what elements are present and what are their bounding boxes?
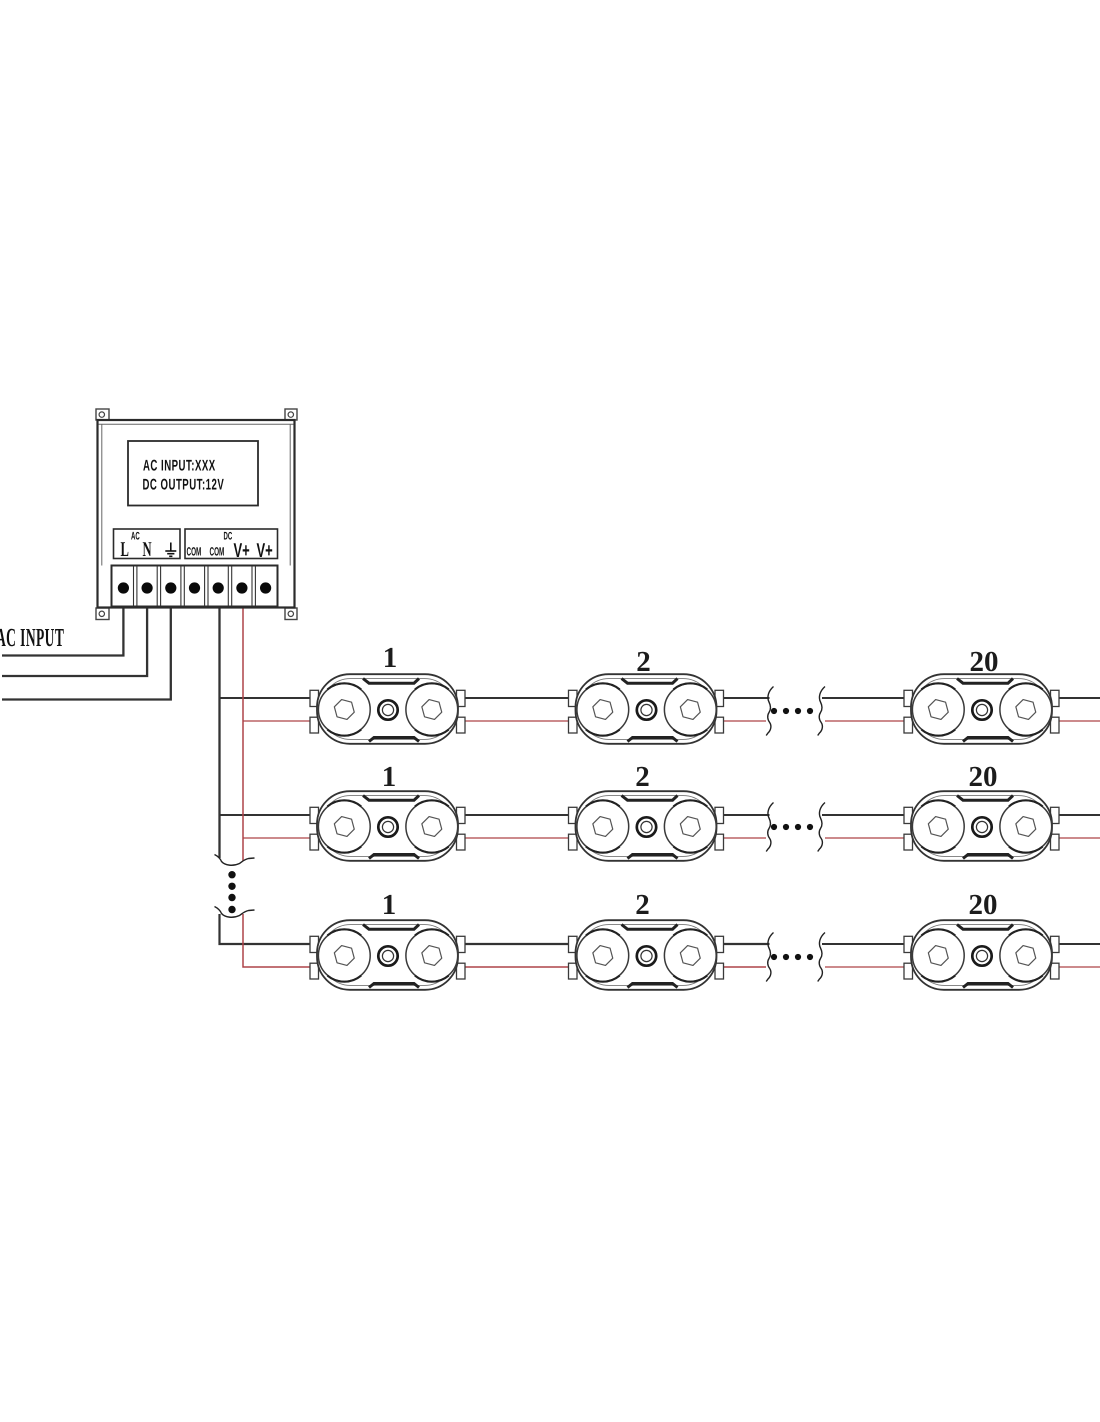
row2 negative wire right [822,814,1100,816]
COM negative vertical wire upper [218,589,220,858]
svg-text:V+: V+ [257,540,273,562]
terminal strip [112,566,278,607]
terminal screw L [118,582,129,593]
LED module 2 row 3 [569,920,724,990]
svg-text:20: 20 [969,889,998,921]
svg-text:AC: AC [131,531,140,543]
PSU corner tab bottom-right [285,608,297,620]
svg-text:2: 2 [635,889,650,921]
row1 positive wire left [243,720,766,722]
PSU enclosure [98,420,295,608]
row1 negative wire right [822,697,1100,699]
PSU corner tab bottom-left [96,608,109,620]
DC terminal label box [185,529,278,559]
svg-text:COM: COM [210,545,225,559]
PSU enclosure inner lines [99,424,294,565]
terminal screw N [142,582,153,593]
terminal screw ground [165,582,176,593]
row 3 wire break [766,933,825,982]
svg-text:COM: COM [187,545,202,559]
LED module 2 row 2 [569,791,724,861]
terminal cell dividers [134,566,256,606]
terminal screw V+1 [236,582,247,593]
row 1 wire break [766,687,825,736]
row1 positive wire right [825,720,1100,722]
LED module 1 row 1 [310,674,465,744]
vertical break squiggle upper [215,855,255,866]
svg-text:20: 20 [969,761,998,793]
terminal screw COM2 [213,582,224,593]
row2 negative wire left [220,814,770,816]
PSU corner tab top-left [96,409,109,420]
row 2 wire break [766,803,825,852]
wire L to AC input [2,589,123,656]
LED module 20 row 3 [904,920,1059,990]
row2 positive wire left [243,837,766,839]
row2 positive wire right [825,837,1100,839]
svg-text:2: 2 [635,761,650,793]
svg-text:AC INPUT: AC INPUT [0,623,64,652]
V+ positive vertical wire upper [242,589,244,861]
LED module 1 row 3 [310,920,465,990]
svg-text:AC INPUT:XXX: AC INPUT:XXX [143,458,216,475]
ground symbol [165,543,176,557]
wire ground to AC input [2,589,171,700]
COM negative vertical wire lower [220,914,770,944]
svg-text:V+: V+ [234,540,250,562]
LED module 1 row 2 [310,791,465,861]
LED module 20 row 2 [904,791,1059,861]
svg-text:1: 1 [383,642,398,674]
vertical break dots [228,871,235,913]
svg-text:1: 1 [382,889,397,921]
wire N to AC input [2,589,147,676]
svg-text:DC: DC [224,531,233,543]
terminal screw COM1 [189,582,200,593]
terminal screw V+2 [260,582,271,593]
svg-text:20: 20 [970,646,999,678]
svg-text:1: 1 [382,761,397,793]
PSU rating label box [128,441,258,506]
row3 negative wire right [822,943,1100,945]
LED module 20 row 1 [904,674,1059,744]
row1 negative wire left [220,697,770,699]
svg-text:DC OUTPUT:12V: DC OUTPUT:12V [143,477,225,494]
LED module 2 row 1 [569,674,724,744]
AC terminal label box [114,529,181,559]
PSU corner tab top-right [285,409,297,420]
row3 positive wire right [825,966,1100,968]
svg-text:L: L [121,537,129,561]
vertical break squiggle lower [215,907,255,918]
V+ positive vertical wire lower [243,914,766,967]
svg-text:N: N [143,537,152,561]
svg-text:2: 2 [636,646,651,678]
